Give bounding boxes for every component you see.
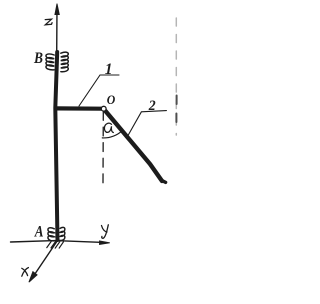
bearing A right coils [60,227,65,240]
z-axis line [56,7,58,53]
scan artifact: faint dashed page-edge line right side [175,18,177,135]
rod 2 (inclined) [105,111,162,181]
scan artifact: darker dashes right edge [175,96,177,123]
label z [45,19,52,25]
label x [22,268,29,277]
angle alpha arc [102,131,122,138]
svg-text:1: 1 [105,61,113,78]
label 1 leader [79,75,119,106]
svg-text:O: O [107,92,116,107]
dashed vertical reference line [102,112,104,183]
label 2 leader [128,111,166,136]
x-axis line [31,241,58,281]
bearing B left coils [46,54,54,70]
rod 1 (horizontal) [56,106,101,110]
z-axis arrowhead [55,4,59,15]
label alpha [104,123,113,132]
svg-text:2: 2 [148,98,156,114]
bearing A left coils [48,228,54,241]
svg-text:B: B [33,50,43,67]
bearing B right coils [61,52,69,72]
x-axis arrowhead [29,272,37,283]
y-axis arrowhead [100,241,110,245]
svg-text:A: A [34,223,44,240]
ground hatching below A [47,241,64,248]
y-axis line [11,241,101,243]
vertical rod AB [55,52,57,240]
label y [102,225,109,239]
rod 2 end hook [162,180,166,182]
node O circle [101,106,106,111]
